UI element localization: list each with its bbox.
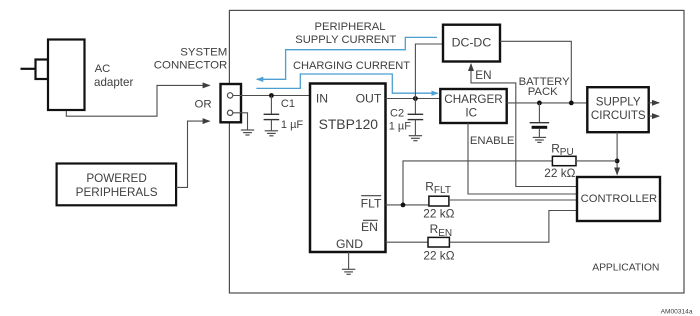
- svg-text:22 kΩ: 22 kΩ: [423, 248, 454, 262]
- svg-text:CONNECTOR: CONNECTOR: [154, 59, 228, 71]
- CONTROLLER box: [577, 177, 660, 221]
- wire RFLT to controller: [449, 199, 577, 201]
- node C1 junction: [269, 93, 274, 98]
- SUPPLY CIRCUITS box: [587, 87, 648, 132]
- battery pack cell: [538, 103, 540, 123]
- connector pin 1: [227, 93, 232, 98]
- wire DC-DC output to battery node: [500, 41, 571, 103]
- resistor REN: [428, 237, 449, 247]
- system connector J1: [221, 84, 242, 122]
- AC adapter plug body: [36, 60, 49, 80]
- svg-text:AC: AC: [95, 63, 111, 75]
- svg-text:SUPPLY: SUPPLY: [596, 96, 641, 109]
- svg-text:SUPPLY CURRENT: SUPPLY CURRENT: [295, 34, 396, 46]
- wire FLT pin to resistor: [386, 204, 429, 206]
- svg-text:STBP120: STBP120: [319, 116, 379, 132]
- node RPU junction: [615, 159, 620, 164]
- svg-text:EN: EN: [475, 69, 491, 82]
- svg-text:REN: REN: [430, 222, 453, 239]
- wire pin2 to ground: [233, 113, 248, 130]
- svg-text:APPLICATION: APPLICATION: [592, 263, 659, 274]
- ground below battery: [533, 137, 546, 142]
- svg-text:22 kΩ: 22 kΩ: [423, 207, 454, 221]
- svg-text:EN: EN: [361, 220, 378, 234]
- ground below STBP120: [342, 269, 355, 274]
- connector pin 2: [227, 110, 232, 115]
- svg-text:FLT: FLT: [361, 197, 382, 211]
- svg-text:OR: OR: [195, 99, 212, 111]
- resistor RFLT: [429, 196, 449, 206]
- node battery junction 2: [569, 101, 574, 106]
- svg-text:PACK: PACK: [528, 86, 558, 98]
- wire GND pin to ground: [348, 252, 350, 269]
- svg-text:CHARGER: CHARGER: [444, 93, 502, 106]
- wire AC adapter to connector (with arrow): [66, 85, 209, 116]
- ground below C1: [265, 131, 278, 136]
- svg-text:1 µF: 1 µF: [389, 121, 412, 133]
- svg-text:1 µF: 1 µF: [281, 119, 304, 131]
- supply output arrow 1: [649, 102, 659, 104]
- node FLT junction: [401, 203, 406, 208]
- node battery junction 1: [537, 101, 542, 106]
- ground below connector: [241, 130, 254, 135]
- svg-text:POWERED: POWERED: [86, 172, 146, 185]
- svg-text:CIRCUITS: CIRCUITS: [591, 109, 646, 122]
- charger IC box: [440, 89, 506, 123]
- svg-text:RFLT: RFLT: [425, 179, 451, 196]
- blue charging current annotation: [256, 74, 437, 93]
- wire EN net: controller to DC-DC (arrow up): [471, 64, 577, 187]
- svg-text:22 kΩ: 22 kΩ: [544, 166, 575, 180]
- resistor RPU: [552, 156, 576, 165]
- blue peripheral supply current annotation: [257, 37, 437, 79]
- svg-text:CHARGING CURRENT: CHARGING CURRENT: [293, 60, 410, 72]
- svg-text:C2: C2: [390, 108, 404, 120]
- svg-text:GND: GND: [336, 237, 363, 251]
- wire OUT to charger IC: [386, 98, 441, 100]
- svg-text:PERIPHERALS: PERIPHERALS: [76, 186, 158, 199]
- wire EN pin to resistor: [386, 241, 429, 243]
- AC adapter box: [48, 40, 85, 111]
- DC-DC converter box: [443, 25, 500, 62]
- svg-text:C1: C1: [281, 98, 295, 110]
- svg-text:OUT: OUT: [356, 91, 382, 105]
- supply output arrow 2: [649, 115, 659, 117]
- AC adapter plug prong: [21, 68, 36, 70]
- svg-text:PERIPHERAL: PERIPHERAL: [315, 21, 386, 33]
- svg-text:IC: IC: [465, 106, 477, 119]
- wire pin1 to IN: [233, 95, 310, 97]
- node C2 junction: [413, 96, 418, 101]
- wire POWERED PERIPHERALS to connector (with arrow): [176, 121, 210, 187]
- wire FLT pullup run: [403, 161, 552, 205]
- svg-text:CONTROLLER: CONTROLLER: [581, 193, 657, 205]
- wire OUT junction up to DC-DC: [415, 44, 443, 99]
- POWERED PERIPHERALS box: [57, 164, 177, 206]
- wire supply circuits down to controller (arrow down): [616, 132, 618, 174]
- svg-text:ENABLE: ENABLE: [470, 135, 515, 147]
- wire REN to controller: [449, 211, 577, 243]
- capacitor C1: [270, 96, 272, 115]
- svg-text:adapter: adapter: [94, 76, 133, 89]
- ground below C2: [409, 136, 422, 141]
- capacitor C2: [414, 99, 416, 115]
- svg-text:IN: IN: [316, 91, 328, 105]
- wire charger output to supply circuits: [507, 102, 588, 104]
- application outer box: [229, 10, 684, 293]
- svg-text:AM00314a: AM00314a: [661, 309, 693, 316]
- op STBP120 U1 box: [310, 84, 386, 253]
- svg-text:SYSTEM: SYSTEM: [180, 46, 227, 58]
- wire ENABLE: charger to controller: [468, 123, 577, 194]
- svg-text:DC-DC: DC-DC: [452, 35, 492, 49]
